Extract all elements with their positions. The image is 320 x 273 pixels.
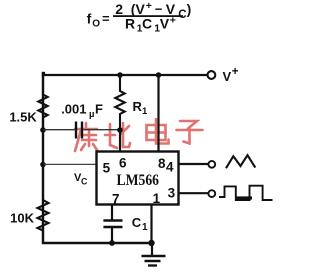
svg-text:C: C	[81, 177, 88, 187]
svg-text:V: V	[223, 69, 232, 84]
svg-text:R: R	[133, 99, 143, 114]
capacitor C1	[103, 219, 122, 222]
svg-text:.001: .001	[61, 102, 86, 117]
svg-text:7: 7	[112, 192, 120, 207]
top rail wire	[42, 74, 208, 76]
svg-text:µ: µ	[89, 109, 94, 120]
wire cap left	[43, 129, 75, 131]
node pin8 top	[156, 72, 162, 78]
svg-text:−: −	[155, 1, 163, 16]
wire cap right	[84, 129, 121, 131]
svg-text:R: R	[125, 16, 135, 32]
V+ terminal	[208, 71, 216, 79]
svg-text:C: C	[132, 215, 142, 230]
svg-text:+: +	[170, 14, 176, 26]
bottom rail wire	[42, 242, 152, 244]
node R1 top	[117, 72, 123, 78]
wire pin7	[111, 204, 113, 220]
svg-text:f: f	[87, 11, 92, 27]
svg-text:O: O	[92, 18, 100, 29]
terminal pin3	[208, 190, 215, 197]
svg-text:10K: 10K	[10, 211, 34, 226]
watermark 电	[147, 119, 169, 144]
node divider	[40, 127, 46, 133]
wire pin4 out	[179, 163, 209, 165]
wire pin3 out	[179, 192, 209, 194]
svg-text:6: 6	[119, 156, 127, 171]
left rail wire	[42, 74, 44, 244]
svg-text:=: =	[102, 11, 110, 26]
terminal pin4	[208, 161, 215, 168]
svg-text:): )	[187, 1, 192, 17]
svg-text:1.5K: 1.5K	[9, 109, 37, 124]
square wave overlap dash	[237, 196, 253, 199]
svg-text:3: 3	[168, 186, 176, 201]
op IC LM566 box	[97, 152, 179, 205]
wire pin8	[157, 75, 159, 152]
svg-text:8: 8	[158, 156, 166, 171]
svg-text:1: 1	[142, 222, 148, 233]
formula f_O = 2(V+ - V_C)/(R1 C1 V+)	[87, 0, 192, 34]
resistor 1.5K	[38, 76, 47, 129]
svg-text:5: 5	[103, 160, 111, 175]
node C1 rail	[109, 240, 115, 246]
node VC	[40, 162, 46, 168]
svg-text:F: F	[95, 102, 103, 117]
wire pin6	[119, 130, 121, 152]
svg-text:+: +	[232, 66, 239, 78]
node pin1 rail	[148, 240, 154, 246]
node cap to pin6	[117, 127, 123, 133]
watermark 子	[177, 121, 203, 144]
svg-text:4: 4	[166, 160, 174, 175]
wire C1 bottom	[111, 227, 113, 243]
capacitor .001uF	[75, 122, 77, 139]
svg-text:2: 2	[115, 1, 123, 17]
resistor 10K	[38, 164, 49, 243]
wire VC to pin5	[43, 163, 97, 165]
svg-text:1: 1	[153, 191, 161, 206]
wire pin1	[150, 204, 152, 243]
svg-text:V: V	[160, 16, 170, 32]
svg-text:1: 1	[142, 106, 148, 117]
corner nub	[42, 72, 45, 76]
triangle wave icon	[226, 155, 255, 168]
svg-text:LM566: LM566	[117, 172, 160, 189]
svg-text:C: C	[142, 16, 152, 32]
ground	[151, 243, 153, 255]
watermark 比	[105, 123, 130, 148]
svg-text:+: +	[146, 0, 152, 12]
square wave icon	[219, 186, 273, 200]
resistor R1	[115, 75, 124, 130]
watermark 康	[75, 123, 97, 151]
